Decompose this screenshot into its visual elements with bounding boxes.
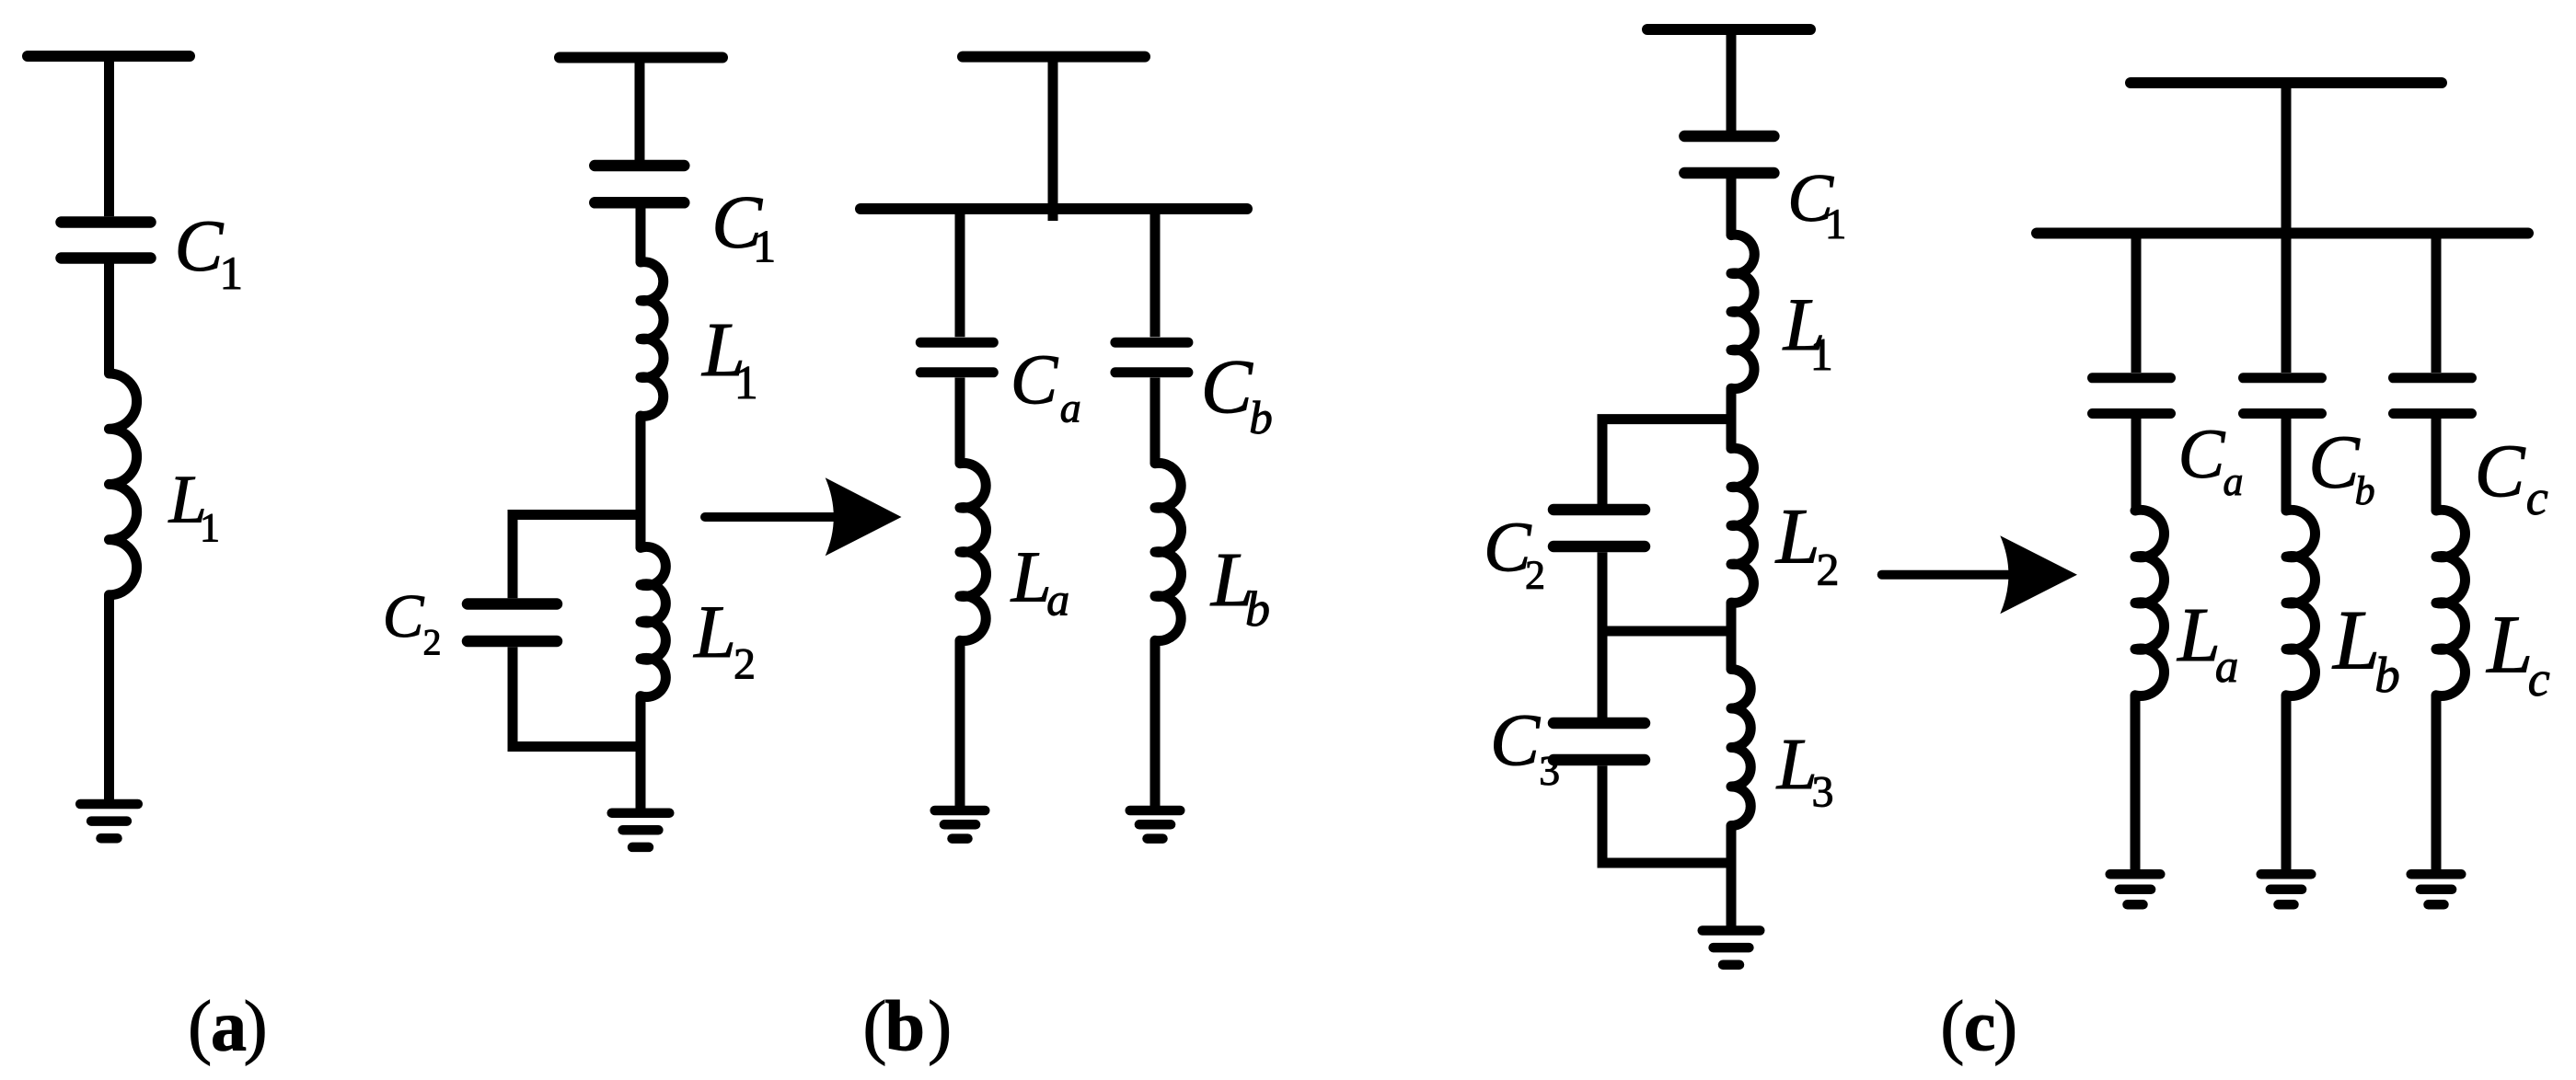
svg-text:c: c (2528, 651, 2550, 707)
svg-text:3: 3 (1812, 767, 1834, 816)
inductor L2 (b) (641, 546, 665, 696)
capacitor Ca (920, 338, 993, 348)
svg-text:b: b (1249, 393, 1273, 444)
svg-text:C: C (1201, 344, 1253, 430)
capacitor Cb (1115, 338, 1188, 348)
svg-text:C: C (2178, 416, 2226, 493)
wire Lb to ground (c) (2281, 695, 2292, 875)
svg-text:2: 2 (1525, 553, 1545, 598)
svg-text:): ) (928, 986, 952, 1066)
inductor L2 (c) (1731, 448, 1753, 603)
svg-text:a: a (2215, 641, 2239, 693)
inductor La (960, 463, 987, 640)
bus node (c) right (2037, 228, 2528, 239)
ground Lb (c) (2261, 869, 2312, 879)
svg-text:a: a (211, 986, 247, 1066)
ground La (c) (2110, 869, 2161, 879)
svg-text:b: b (2374, 647, 2400, 703)
svg-text:C: C (175, 207, 225, 287)
wire node2 to C3 branch (c) (1598, 631, 1608, 718)
bus bar top rail (c) right (2131, 77, 2442, 88)
branch wire bus to Cc (c) (2432, 234, 2442, 373)
svg-text:2: 2 (1817, 543, 1840, 594)
bus node (b) right (861, 203, 1247, 214)
svg-text:2: 2 (423, 622, 442, 663)
svg-text:): ) (1993, 986, 2017, 1066)
capacitor Cb (c) (2244, 373, 2322, 383)
inductor L1 (c) (1731, 235, 1754, 388)
wire La to ground (c) (2131, 695, 2141, 875)
wire rail to C1 (c) (1727, 29, 1737, 131)
wire L1 to node1 (c) (1727, 388, 1737, 448)
svg-text:L: L (1011, 537, 1052, 617)
svg-text:1: 1 (200, 505, 220, 550)
svg-text:3: 3 (1539, 747, 1560, 794)
wire L2 to ground (b) (636, 696, 646, 813)
wire L3 to ground (c) (1727, 826, 1737, 931)
branch wire bus to Cb (c) (2281, 234, 2292, 373)
node1 wire to C2 branch (c) (1602, 419, 1731, 505)
inductor La (c) (2135, 510, 2164, 695)
inductor Lb (1155, 463, 1182, 640)
svg-text:b: b (2355, 468, 2375, 513)
arrow (b) (705, 512, 839, 522)
wire Ca to La (955, 378, 965, 464)
svg-text:c: c (2526, 470, 2548, 525)
branch wire bus to Cb (1150, 209, 1161, 337)
wire La to ground (955, 640, 965, 810)
node2 wire (c) (1727, 603, 1737, 669)
inductor Lc (c) (2436, 510, 2465, 695)
inductor L1 (b) (641, 262, 664, 417)
svg-text:C: C (2308, 419, 2361, 504)
svg-text:C: C (383, 582, 425, 650)
wire rail to C1 (104, 56, 114, 216)
bus bar top rail (b) right (963, 52, 1145, 63)
wire rail to C1 (b) (635, 58, 645, 161)
inductor Lb (c) (2286, 510, 2315, 695)
svg-text:1: 1 (753, 220, 776, 271)
capacitor Cc (c) (2394, 373, 2472, 383)
svg-text:a: a (1060, 384, 1081, 431)
branch wire bus to Ca (955, 209, 965, 337)
ground Lc (c) (2411, 869, 2462, 879)
wire L1 to ground (104, 595, 114, 804)
svg-text:): ) (244, 986, 268, 1066)
svg-text:2: 2 (734, 640, 756, 689)
svg-text:(: ( (188, 986, 212, 1066)
svg-text:L: L (693, 590, 736, 673)
capacitor C2 (b) (468, 598, 557, 610)
svg-text:L: L (1774, 492, 1820, 580)
ground La (935, 806, 986, 816)
wire C1 to L1 (c) (1727, 178, 1737, 236)
capacitor C3 (c) (1554, 718, 1645, 730)
wire rail to bus (b) right (1048, 57, 1058, 221)
wire C2 to bottom join (b) (513, 647, 641, 746)
ground Lb (1130, 806, 1181, 816)
svg-text:(: ( (863, 986, 887, 1066)
bus bar top rail (a) (28, 51, 190, 62)
capacitor C1 (b) (595, 160, 684, 172)
svg-text:c: c (1964, 986, 1996, 1066)
arrow (c) (1882, 570, 2017, 580)
svg-text:L: L (2331, 593, 2380, 687)
capacitor Ca (c) (2093, 373, 2171, 383)
capacitor C1 (c) (1684, 131, 1773, 143)
wire Cb to Lb (c) (2281, 419, 2292, 511)
wire C1 to L1 (b) (636, 208, 646, 262)
svg-text:b: b (885, 986, 925, 1066)
capacitor C1 (62, 216, 151, 228)
capacitor C2 (c) (1554, 504, 1645, 516)
wire C3 to bottom join (c) (1602, 765, 1731, 863)
svg-text:C: C (1011, 340, 1059, 419)
wire Lb to ground (1150, 640, 1161, 810)
svg-text:C: C (2475, 429, 2526, 512)
ground (a) (80, 799, 138, 810)
svg-text:L: L (2485, 600, 2533, 691)
svg-text:1: 1 (220, 248, 244, 300)
inductor L3 (c) (1731, 670, 1750, 826)
wire Cc to Lc (c) (2432, 419, 2442, 511)
svg-text:L: L (2177, 592, 2221, 678)
svg-text:1: 1 (734, 357, 758, 409)
branch wire bus to Ca (c) (2131, 234, 2142, 373)
svg-text:b: b (1245, 581, 1270, 637)
wire Ca to La (c) (2131, 419, 2142, 511)
node wire to C2 branch (b) (513, 515, 641, 599)
wire rail to bus (c) right (2281, 83, 2292, 241)
svg-text:1: 1 (1825, 201, 1847, 248)
svg-text:1: 1 (1810, 328, 1833, 380)
svg-text:a: a (2224, 459, 2244, 504)
ground (b) left (612, 808, 670, 818)
wire C2 to node2 (c) (1598, 552, 1608, 631)
svg-text:C: C (1490, 699, 1541, 782)
svg-text:(: ( (1940, 986, 1964, 1066)
svg-text:a: a (1046, 574, 1069, 626)
wire C1 to L1 (104, 264, 114, 374)
inductor L1 (110, 373, 137, 595)
wire Cb to Lb (1150, 378, 1161, 464)
bus bar top rail (b) left (560, 52, 722, 63)
bus bar top rail (c) left (1647, 24, 1810, 35)
wire Lc to ground (c) (2432, 695, 2442, 875)
ground (c) left (1703, 925, 1761, 936)
wire L1 to node (b) (636, 416, 646, 547)
